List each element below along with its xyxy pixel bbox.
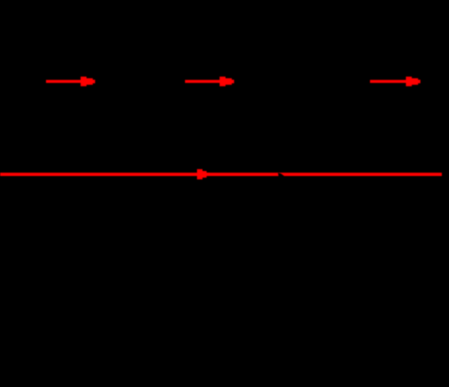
field arrow 2 (top middle) <box>185 77 234 87</box>
axis arrowhead (mid line) <box>197 169 210 179</box>
field arrow 3 (top right) <box>370 77 420 87</box>
field arrow 1 (top left) <box>46 77 95 87</box>
black notch over line <box>278 173 284 177</box>
propagation axis line <box>0 173 442 176</box>
